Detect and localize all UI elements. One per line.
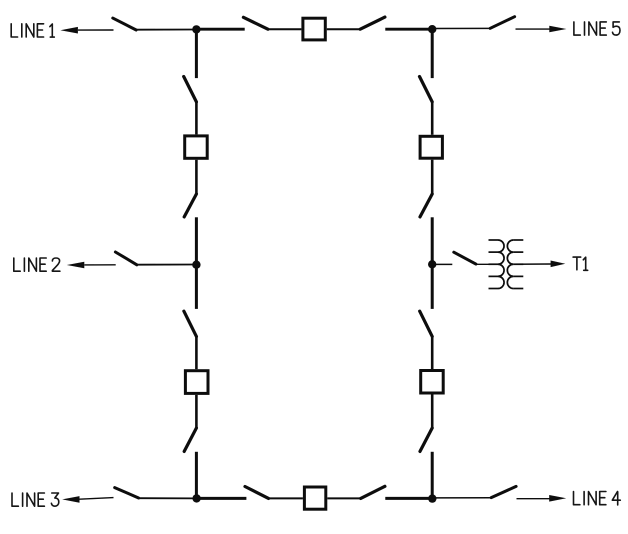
wire right bus below breaker [431, 160, 434, 194]
label LINE 4 [574, 492, 621, 505]
disconnect switch right-bus upper blade [420, 77, 433, 102]
wire LINE 2 to mid-left node [137, 264, 197, 266]
disconnect switch right-bus second blade [420, 194, 432, 217]
wire top bus right segment [385, 28, 432, 31]
wire bottom bus left segment [196, 497, 246, 500]
wire LINE 4 from bottom-right node [432, 497, 491, 499]
circuit breaker left-upper [185, 136, 208, 158]
disconnect switch right-bus third blade [420, 311, 433, 336]
wire right bus to lower breaker [431, 336, 434, 369]
node top-left [192, 25, 200, 33]
wire breaker to switch [327, 28, 360, 30]
wire right bus to bottom node [431, 452, 434, 499]
arrow LINE 2 [67, 262, 85, 269]
disconnect switch top-bus left blade [243, 17, 268, 29]
arrow LINE 1 [60, 27, 78, 34]
wire LINE 3 arrow line [80, 498, 114, 500]
transformer T1 secondary winding [507, 240, 523, 289]
circuit breaker left-lower [185, 371, 208, 394]
wire left bus below breaker [195, 160, 198, 194]
wire top bus to breaker [268, 28, 302, 30]
disconnect switch T1 blade [454, 252, 476, 264]
wire T1 switch to winding [476, 263, 498, 265]
label T1 [573, 257, 588, 270]
disconnect switch left-bus fourth blade [184, 428, 196, 451]
wire left bus to bottom node [195, 452, 198, 499]
node top-right [428, 25, 436, 33]
arrow T1 [551, 261, 566, 268]
label LINE 3 [12, 493, 59, 506]
arrow LINE 4 [549, 495, 566, 502]
disconnect switch LINE 1 blade [113, 18, 136, 30]
wire LINE 4 arrow line [517, 498, 551, 500]
label LINE 2 [14, 258, 60, 271]
node mid-left [192, 261, 200, 269]
wire left bus to mid node [195, 217, 198, 264]
node mid-right [428, 260, 436, 268]
wire right bus from top node [431, 29, 434, 78]
wire left bus below mid node [195, 265, 198, 309]
wire left bus below lower breaker [195, 395, 198, 428]
node bottom-left [192, 494, 200, 502]
disconnect switch left-bus upper blade [184, 77, 197, 102]
transformer T1 primary winding [489, 240, 505, 289]
wire right bus to mid node [431, 217, 434, 264]
disconnect switch LINE 4 blade [491, 486, 516, 497]
arrow LINE 3 [62, 496, 79, 503]
circuit breaker right-upper [420, 136, 442, 158]
wire right bus below mid node [431, 265, 434, 309]
circuit breaker top-middle [303, 18, 325, 40]
wire LINE 5 from top-right node [432, 27, 490, 29]
disconnect switch top-bus right blade [360, 17, 385, 29]
wire right bus to breaker [431, 102, 434, 135]
disconnect switch LINE 5 blade [490, 17, 514, 29]
disconnect switch left-bus third blade [184, 311, 197, 336]
circuit breaker bottom-middle [304, 487, 325, 509]
wire breaker to switch bottom [327, 497, 360, 499]
wire T1 from mid-right node [432, 263, 452, 265]
disconnect switch bottom-bus left blade [245, 487, 269, 499]
arrow LINE 5 [549, 26, 566, 33]
wire T1 arrow line [513, 263, 551, 265]
node bottom-right [428, 494, 436, 502]
disconnect switch LINE 2 blade [115, 252, 136, 265]
wire top bus left segment [196, 28, 244, 31]
wire LINE 3 to bottom-left node [139, 497, 197, 499]
disconnect switch right-bus fourth blade [420, 428, 432, 451]
circuit breaker right-lower [421, 371, 444, 394]
wire LINE 2 arrow line [84, 264, 115, 266]
wire right bus below lower breaker [431, 395, 434, 429]
wire left bus to breaker [195, 102, 198, 134]
disconnect switch bottom-bus right blade [361, 486, 385, 498]
wire LINE 5 arrow line [516, 28, 551, 30]
disconnect switch LINE 3 blade [115, 488, 139, 498]
wire bottom bus to breaker [269, 497, 303, 499]
label LINE 1 [11, 24, 54, 37]
wire left bus to lower breaker [195, 336, 198, 369]
wire LINE 1 to top-left node [136, 29, 196, 31]
disconnect switch left-bus second blade [184, 194, 196, 217]
wire LINE 1 arrow line [78, 29, 114, 31]
wire left bus from top node [195, 29, 198, 78]
label LINE 5 [574, 22, 620, 35]
wire bottom bus right segment [385, 497, 432, 500]
